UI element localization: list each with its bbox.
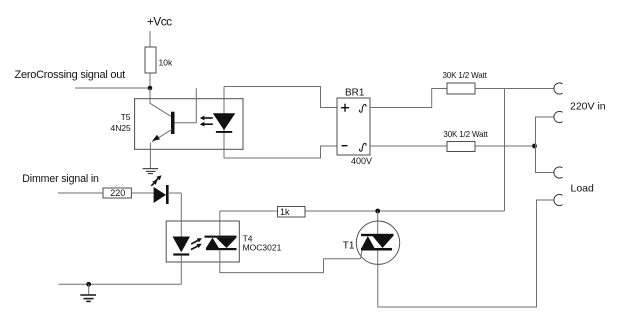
- wire T1 MT1 down: [377, 251, 379, 265]
- LED D1 inside T5: [223, 87, 225, 159]
- wire resistor to node: [149, 73, 151, 88]
- svg-text:30K 1/2 Watt: 30K 1/2 Watt: [443, 130, 488, 139]
- wire emitter: [152, 129, 172, 142]
- triac T1 symbol: [361, 234, 394, 251]
- svg-text:T5: T5: [121, 112, 131, 122]
- wire collector: [150, 88, 171, 116]
- svg-text:Dimmer signal in: Dimmer signal in: [22, 173, 99, 185]
- wire LED cathode to BR1 minus: [224, 146, 337, 158]
- wire Load bottom to triac MT1: [378, 200, 554, 307]
- wire T1 MT2: [377, 211, 379, 234]
- wire base stub: [175, 88, 197, 123]
- wire BR1 bottom AC to 30K: [370, 145, 447, 147]
- wire 30K top to terminal: [475, 88, 554, 90]
- wire MOC triac top to 1k line: [219, 211, 221, 236]
- svg-text:MOC3021: MOC3021: [243, 243, 282, 253]
- svg-text:ZeroCrossing signal out: ZeroCrossing signal out: [15, 69, 126, 81]
- terminal 220V bottom: [554, 111, 563, 122]
- terminal 220V top: [554, 83, 563, 94]
- resistor 1k: [278, 207, 306, 218]
- junction dot collector node: [148, 86, 153, 91]
- svg-text:220V in: 220V in: [570, 101, 606, 113]
- terminal Load top: [554, 167, 563, 178]
- wire dimmer in: [58, 192, 103, 194]
- bridge rectifier BR1: [337, 98, 370, 155]
- BR1 plus and minus marks: [341, 104, 349, 146]
- opto-triac T4 MOC3021 box: [166, 221, 239, 262]
- terminal Load bottom: [554, 194, 563, 205]
- wire 30K bottom to junction: [475, 145, 535, 147]
- wire LED anode to BR1 plus: [224, 87, 337, 108]
- optocoupler T5 4N25 box: [135, 99, 243, 150]
- wire ZeroCrossing signal out: [75, 87, 150, 89]
- transistor T5 phototransistor base bar: [171, 112, 175, 134]
- LED D2 arrows: [151, 179, 158, 186]
- wire T1 gate: [324, 258, 361, 260]
- wire MOC triac bottom to gate: [220, 250, 324, 272]
- svg-text:1k: 1k: [280, 207, 290, 217]
- wire junction to Load terminal 1: [536, 146, 555, 173]
- wire LED to T4: [168, 192, 181, 194]
- svg-text:400V: 400V: [351, 156, 372, 166]
- arrows inside T4: [191, 241, 198, 250]
- resistor 30K bottom: [447, 142, 475, 152]
- junction dot ground: [86, 282, 91, 287]
- svg-text:4N25: 4N25: [110, 123, 131, 133]
- svg-text:10k: 10k: [159, 58, 173, 68]
- junction dot T1 MT2: [375, 209, 380, 214]
- ground under T5 emitter: [143, 169, 159, 174]
- wire ground return bottom: [59, 283, 182, 285]
- svg-text:BR1: BR1: [345, 88, 365, 99]
- wire junction to 220V terminal 2: [536, 117, 555, 146]
- svg-text:Load: Load: [571, 183, 595, 195]
- resistor 10k: [145, 47, 156, 73]
- wire BR1 top AC to 30K: [370, 89, 447, 108]
- BR1 AC squiggle bottom: [360, 143, 367, 151]
- BR1 AC squiggle top: [360, 104, 367, 112]
- resistor 220: [103, 188, 131, 198]
- LED D1 inside T5 arrows: [204, 118, 212, 124]
- resistor 30K top: [447, 83, 475, 94]
- LED D2 dimmer indicator: [154, 187, 166, 203]
- wire mains vertical drop: [504, 89, 506, 212]
- wire mains to gate node horizontal: [220, 210, 505, 212]
- LED inside T4: [180, 193, 182, 237]
- wire Vcc stub: [149, 31, 151, 47]
- triac inside T4: [205, 236, 237, 251]
- svg-text:30K 1/2 Watt: 30K 1/2 Watt: [443, 71, 488, 80]
- svg-text:220: 220: [110, 188, 125, 198]
- wire 220 to LED: [131, 192, 154, 194]
- svg-text:+Vcc: +Vcc: [147, 14, 172, 28]
- junction dot neutral: [532, 144, 537, 149]
- triac T1 circle: [356, 221, 399, 264]
- ground symbol bottom: [88, 284, 90, 294]
- svg-text:T1: T1: [343, 241, 355, 252]
